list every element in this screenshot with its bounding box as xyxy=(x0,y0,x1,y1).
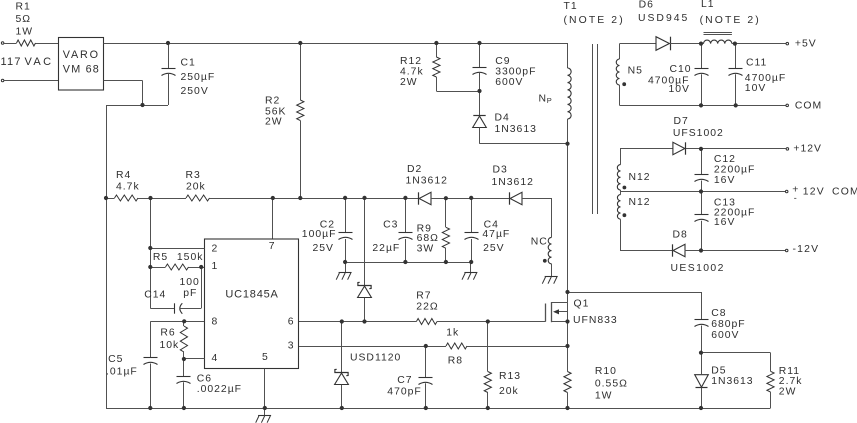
svg-text:D7: D7 xyxy=(674,116,689,127)
svg-text:3300pF: 3300pF xyxy=(495,67,536,78)
svg-text:C10: C10 xyxy=(670,64,692,75)
svg-text:+12V: +12V xyxy=(793,144,822,155)
svg-text:100µF: 100µF xyxy=(302,229,337,240)
svg-text:C8: C8 xyxy=(711,308,726,319)
svg-text:10V: 10V xyxy=(745,83,767,94)
svg-text:VM 68: VM 68 xyxy=(63,63,100,75)
svg-text:D5: D5 xyxy=(711,365,726,376)
svg-text:R2: R2 xyxy=(265,96,280,107)
svg-text:5: 5 xyxy=(262,352,268,363)
svg-text:R1: R1 xyxy=(16,2,31,13)
svg-text:NC: NC xyxy=(531,237,548,248)
svg-text:D8: D8 xyxy=(673,230,688,241)
svg-text:R5: R5 xyxy=(153,252,168,263)
svg-text:R12: R12 xyxy=(400,56,422,67)
svg-text:100: 100 xyxy=(180,277,200,288)
svg-text:25V: 25V xyxy=(313,243,335,254)
svg-text:4.7k: 4.7k xyxy=(400,67,424,78)
svg-text:VARO: VARO xyxy=(63,49,100,61)
svg-text:2W: 2W xyxy=(400,77,418,88)
svg-text:D6: D6 xyxy=(639,0,654,11)
svg-text:-12V: -12V xyxy=(793,244,820,255)
svg-text:5Ω: 5Ω xyxy=(16,14,32,25)
svg-text:R6: R6 xyxy=(160,328,175,339)
svg-text:1N3613: 1N3613 xyxy=(711,376,753,387)
svg-text:4.7k: 4.7k xyxy=(116,182,140,193)
svg-text:R13: R13 xyxy=(499,371,521,382)
svg-text:1N3612: 1N3612 xyxy=(406,176,448,187)
svg-text:(NOTE 2): (NOTE 2) xyxy=(700,15,761,26)
svg-text:2W: 2W xyxy=(779,386,797,397)
svg-text:R7: R7 xyxy=(416,290,431,301)
svg-text:R3: R3 xyxy=(186,170,201,181)
svg-text:L1: L1 xyxy=(701,0,715,10)
svg-text:USD1120: USD1120 xyxy=(350,353,401,364)
svg-text:C12: C12 xyxy=(714,154,736,165)
svg-text:N5: N5 xyxy=(628,65,643,76)
svg-text:D3: D3 xyxy=(493,165,508,176)
svg-text:10k: 10k xyxy=(160,340,180,351)
svg-text:C9: C9 xyxy=(495,56,510,67)
svg-text:COM: COM xyxy=(832,187,857,198)
svg-text:3: 3 xyxy=(288,340,294,351)
svg-text:1W: 1W xyxy=(595,391,613,402)
svg-text:T1: T1 xyxy=(564,1,578,12)
svg-text:250V: 250V xyxy=(181,86,209,97)
svg-text:UES1002: UES1002 xyxy=(671,263,725,274)
svg-text:10V: 10V xyxy=(669,84,691,95)
svg-text:pF: pF xyxy=(183,288,197,299)
svg-text:UFN833: UFN833 xyxy=(573,315,618,326)
svg-text:1k: 1k xyxy=(446,327,459,338)
svg-text:.0022µF: .0022µF xyxy=(197,384,242,395)
svg-text:16V: 16V xyxy=(714,175,736,186)
svg-text:8: 8 xyxy=(212,316,218,327)
svg-text:UFS1002: UFS1002 xyxy=(673,128,724,139)
svg-text:1N3612: 1N3612 xyxy=(492,177,534,188)
svg-text:7: 7 xyxy=(269,241,275,252)
svg-text:22µF: 22µF xyxy=(372,243,400,254)
svg-text:R4: R4 xyxy=(116,170,131,181)
svg-text:C7: C7 xyxy=(397,375,412,386)
svg-text:600V: 600V xyxy=(495,77,523,88)
svg-text:20k: 20k xyxy=(499,386,519,397)
svg-text:D2: D2 xyxy=(407,164,422,175)
svg-text:680pF: 680pF xyxy=(711,319,745,330)
svg-text:N12: N12 xyxy=(629,197,651,208)
svg-text:C3: C3 xyxy=(383,219,398,230)
svg-text:+5V: +5V xyxy=(795,39,817,50)
svg-text:250µF: 250µF xyxy=(181,72,216,83)
svg-text:D4: D4 xyxy=(495,113,510,124)
svg-text:C6: C6 xyxy=(197,373,212,384)
svg-text:16V: 16V xyxy=(714,217,736,228)
svg-text:P: P xyxy=(547,96,552,105)
svg-text:COM: COM xyxy=(795,100,822,111)
svg-text:600V: 600V xyxy=(711,330,739,341)
svg-text:22Ω: 22Ω xyxy=(416,301,438,312)
svg-text:25V: 25V xyxy=(483,243,505,254)
svg-text:0.55Ω: 0.55Ω xyxy=(595,378,628,389)
svg-text:20k: 20k xyxy=(186,182,206,193)
svg-text:R8: R8 xyxy=(448,356,463,367)
svg-text:C11: C11 xyxy=(746,57,767,68)
svg-text:47µF: 47µF xyxy=(482,229,510,240)
svg-text:1W: 1W xyxy=(16,26,34,37)
svg-text:2W: 2W xyxy=(265,117,283,128)
svg-text:C5: C5 xyxy=(108,354,123,365)
svg-text:(NOTE 2): (NOTE 2) xyxy=(564,15,625,26)
svg-text:Q1: Q1 xyxy=(574,298,590,309)
svg-text:12V: 12V xyxy=(803,187,825,198)
svg-text:R10: R10 xyxy=(595,366,617,377)
svg-text:UC1845A: UC1845A xyxy=(225,289,278,301)
svg-text:1N3613: 1N3613 xyxy=(495,124,537,135)
svg-text:2: 2 xyxy=(212,244,218,255)
svg-text:150k: 150k xyxy=(177,252,204,263)
svg-text:470pF: 470pF xyxy=(387,386,421,397)
svg-text:-: - xyxy=(794,193,797,203)
svg-text:4: 4 xyxy=(212,353,218,364)
svg-text:68Ω: 68Ω xyxy=(417,233,439,244)
svg-text:USD945: USD945 xyxy=(638,13,689,24)
svg-text:C1: C1 xyxy=(181,58,196,69)
svg-text:N12: N12 xyxy=(629,172,651,183)
svg-text:1: 1 xyxy=(212,261,218,272)
svg-text:.01µF: .01µF xyxy=(106,366,138,377)
svg-text:117: 117 xyxy=(1,56,22,68)
svg-text:3W: 3W xyxy=(417,244,435,255)
svg-text:56K: 56K xyxy=(265,106,287,117)
svg-text:6: 6 xyxy=(288,316,294,327)
svg-text:2.7k: 2.7k xyxy=(779,376,803,387)
svg-text:VAC: VAC xyxy=(25,56,54,68)
svg-text:C14: C14 xyxy=(144,289,166,300)
svg-text:N: N xyxy=(539,93,548,104)
